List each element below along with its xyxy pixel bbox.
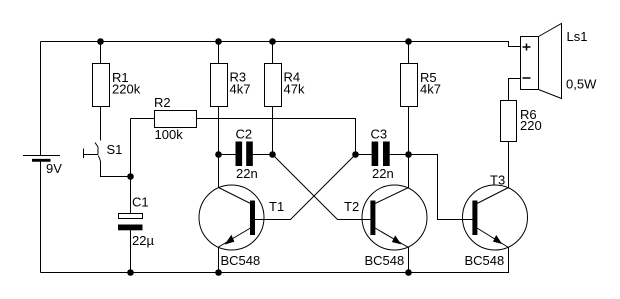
svg-text:T2: T2 <box>344 199 359 214</box>
capacitor C2 <box>236 127 258 182</box>
svg-text:22n: 22n <box>372 166 394 181</box>
resistor R1 <box>93 64 141 107</box>
wire R5 bottom lead <box>408 107 410 155</box>
svg-text:220: 220 <box>520 118 542 133</box>
node top rail R4 <box>269 38 276 45</box>
svg-text:100k: 100k <box>155 127 184 142</box>
svg-text:S1: S1 <box>107 142 123 157</box>
wire node B4 to T3 base <box>409 155 473 220</box>
wire cross-couple to T1 base <box>255 155 356 220</box>
resistor R2 <box>154 95 197 142</box>
wire R2 right to node B3 <box>197 119 356 155</box>
resistor R4 <box>265 64 305 107</box>
wire C3 left lead <box>356 154 372 156</box>
wire R3 bottom lead <box>218 107 220 155</box>
wire R3 top lead <box>218 42 220 64</box>
svg-text:22µ: 22µ <box>132 233 154 248</box>
svg-text:BC548: BC548 <box>365 253 405 268</box>
svg-text:Ls1: Ls1 <box>567 29 588 44</box>
wire R2 left lead <box>131 118 155 120</box>
svg-text:T1: T1 <box>269 199 284 214</box>
svg-text:220k: 220k <box>112 82 141 97</box>
wire bottom rail <box>41 247 509 273</box>
speaker Ls1 <box>521 24 598 99</box>
node top rail R5 <box>405 38 412 45</box>
wire T1 collector <box>218 155 220 189</box>
node B4 C3-right <box>405 151 412 158</box>
wire R5 top lead <box>408 42 410 64</box>
wire speaker minus to R6 <box>509 79 521 101</box>
resistor R6 <box>501 101 542 142</box>
svg-text:4k7: 4k7 <box>230 82 251 97</box>
wire C1 to bottom rail <box>130 230 132 272</box>
wire R1 top lead <box>100 42 102 64</box>
svg-text:4k7: 4k7 <box>420 82 441 97</box>
wire T2 emitter <box>408 247 410 273</box>
transistor T1 <box>199 185 284 268</box>
node B1 C2-left <box>215 151 222 158</box>
wire T3 collector to R6 <box>508 142 510 189</box>
wire top rail <box>41 42 521 47</box>
wire S1 to node A <box>101 161 131 177</box>
node bottom rail T1 <box>215 269 222 276</box>
svg-text:C3: C3 <box>371 127 388 142</box>
svg-text:BC548: BC548 <box>465 253 505 268</box>
node top rail R3 <box>215 38 222 45</box>
svg-text:T3: T3 <box>490 173 505 188</box>
node bottom rail C1 <box>127 269 134 276</box>
wire cross-couple to T2 base <box>273 155 371 220</box>
wire node A riser to R2 <box>130 119 132 177</box>
transistor T3 <box>463 173 528 269</box>
node top rail R1 <box>97 38 104 45</box>
resistor R5 <box>401 64 441 107</box>
node B2 C2-right <box>269 151 276 158</box>
transistor T2 <box>344 185 427 268</box>
svg-text:BC548: BC548 <box>221 253 261 268</box>
wire battery top lead <box>40 42 42 156</box>
switch S1 <box>84 142 123 161</box>
node A S1/C1/R2 <box>127 173 134 180</box>
wire C2 right lead <box>253 154 273 156</box>
svg-text:R2: R2 <box>154 95 171 110</box>
capacitor C3 <box>371 127 394 182</box>
node B3 C3-left <box>352 151 359 158</box>
capacitor C1 <box>118 195 154 249</box>
wire R4 bottom lead <box>272 107 274 155</box>
svg-text:9V: 9V <box>46 161 62 176</box>
wire C2 left lead <box>219 154 236 156</box>
battery 9V <box>23 156 62 177</box>
svg-text:0,5W: 0,5W <box>566 77 597 92</box>
wire T2 collector <box>408 155 410 189</box>
wire C3 right lead <box>390 154 409 156</box>
svg-text:C2: C2 <box>236 127 253 142</box>
wire R4 top lead <box>272 42 274 64</box>
svg-text:C1: C1 <box>132 195 149 210</box>
wire R1 to S1 <box>100 107 102 141</box>
node bottom rail T2 <box>405 269 412 276</box>
wire T1 emitter <box>218 247 220 273</box>
resistor R3 <box>211 64 251 107</box>
wire battery bottom lead <box>40 161 42 273</box>
svg-text:47k: 47k <box>284 82 305 97</box>
svg-text:22n: 22n <box>236 166 258 181</box>
wire node A to C1 <box>130 177 132 214</box>
